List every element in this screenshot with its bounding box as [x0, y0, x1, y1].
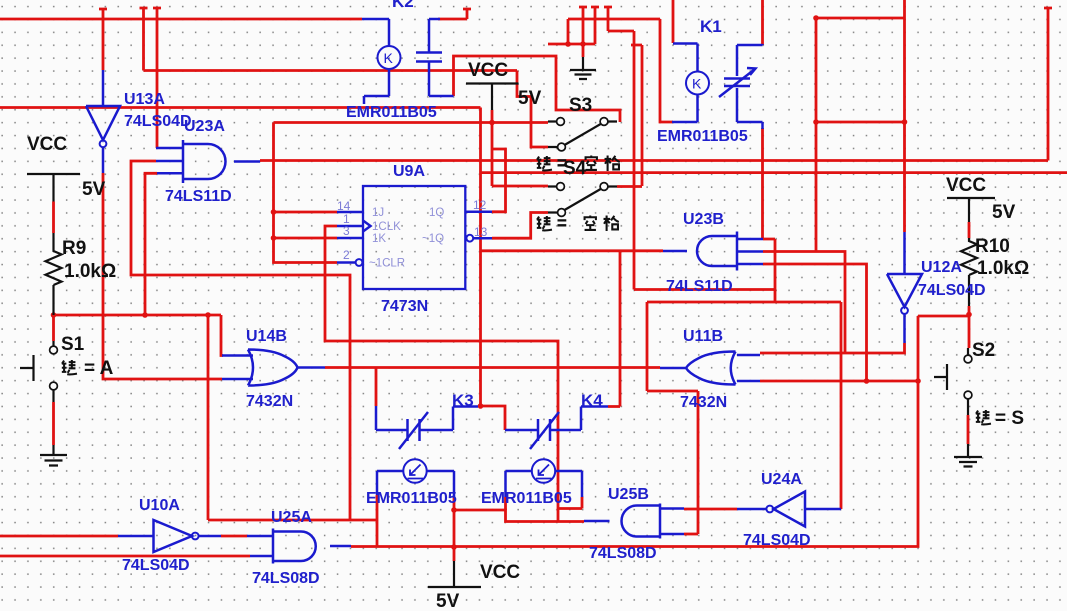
pin 3 stub U9A 1K: [337, 237, 363, 240]
node bottom VCC tap: [451, 544, 457, 550]
pin 12 stub U9A 1Q: [465, 211, 492, 214]
svg-text:74LS04D: 74LS04D: [122, 557, 190, 574]
wire bottom VCC drop: [453, 510, 456, 561]
wire x698 net: [647, 391, 698, 534]
wire top vertical x608: [604, 7, 634, 31]
or-gate U11B: [660, 352, 760, 385]
svg-text:U24A: U24A: [761, 471, 802, 488]
switch S1 stubs: [20, 341, 54, 402]
node pin3 tap: [271, 235, 277, 241]
svg-text:1CLK: 1CLK: [372, 221, 401, 233]
relay K3 contact slash: [399, 412, 428, 449]
pin 13 stub U9A ~1Q: [474, 237, 493, 240]
wire x492 vcc-S4 vertical: [492, 123, 548, 187]
wire pin3 feed: [274, 237, 338, 240]
relay K1 contact arrow: [719, 68, 756, 97]
svg-text:5V: 5V: [992, 202, 1016, 223]
wire U10A-U25A mid: [221, 535, 247, 538]
text jian S2: [976, 410, 991, 424]
text jian S1: [62, 360, 77, 374]
svg-text:U14B: U14B: [246, 328, 287, 345]
wire U23B bottom input chain: [763, 264, 867, 381]
svg-text:S3: S3: [569, 95, 592, 116]
wire S3 pole chain: [517, 71, 548, 148]
relay K1 contact: [724, 44, 763, 129]
wire VCC-C to S3 right: [454, 56, 621, 122]
ground under S1: [40, 445, 67, 466]
svg-text:~1CLR: ~1CLR: [369, 258, 405, 270]
svg-text:VCC: VCC: [27, 134, 67, 155]
node top gnd left: [565, 41, 571, 47]
text kong row2: [584, 216, 597, 230]
wire y520 row: [208, 519, 377, 522]
svg-text:K2: K2: [392, 0, 414, 11]
wire long line y172: [481, 171, 1067, 174]
wire S4 right stub: [617, 185, 642, 188]
svg-text:= A: = A: [84, 358, 114, 379]
jk-flipflop U9A box: [363, 186, 465, 289]
svg-text:~1Q: ~1Q: [422, 233, 444, 245]
svg-text:U11B: U11B: [683, 328, 723, 345]
wire y70 horizontal bus: [144, 69, 518, 72]
wire right edge vertical: [1044, 8, 1052, 161]
power VCC right symbol: [947, 198, 995, 222]
wire x918 bottom L: [351, 316, 918, 547]
wire U11B bottom input row: [760, 380, 918, 383]
wire U23A bottom input net: [145, 173, 157, 315]
switch S4 lever: [565, 189, 602, 211]
wire R10 top red stub: [968, 222, 971, 238]
node top gnd: [580, 41, 586, 47]
svg-text:1.0kΩ: 1.0kΩ: [977, 258, 1029, 279]
pin 2 stub U9A ~1CLR: [337, 261, 356, 264]
wire U25B bottom input stub: [684, 533, 698, 536]
svg-text:U13A: U13A: [124, 91, 165, 108]
relay K2 coil plates: [416, 19, 454, 96]
power VCC bottom symbol: [428, 561, 481, 587]
svg-text:VCC: VCC: [480, 562, 520, 583]
or-gate U14B: [222, 350, 325, 386]
wire top vertical x595: [591, 7, 599, 44]
svg-text:7432N: 7432N: [246, 393, 293, 410]
wire R10 bottom red stub: [968, 306, 971, 315]
wire bridge y122: [816, 121, 904, 124]
svg-text:U10A: U10A: [139, 497, 180, 514]
wire K1 contact bottom drop: [761, 128, 764, 239]
switch S3 stubs: [548, 122, 617, 148]
svg-text:13: 13: [474, 225, 488, 239]
wire K1 right top: [761, 0, 764, 45]
switch S3 lever: [565, 124, 602, 146]
svg-text:= S: = S: [995, 408, 1024, 429]
inverter U10A bubble: [192, 533, 199, 540]
inverter U10A: [118, 520, 250, 552]
node U11B in b1: [864, 378, 870, 384]
svg-text:74LS04D: 74LS04D: [124, 113, 192, 130]
node top right bridge: [813, 15, 819, 21]
svg-text:U25B: U25B: [608, 486, 649, 503]
svg-text:K: K: [384, 50, 394, 66]
inverter U24A: [737, 492, 841, 527]
wire x642 to S4 right: [631, 45, 642, 186]
pin 13 bubble: [466, 235, 473, 242]
svg-text:EMR011B05: EMR011B05: [366, 490, 457, 507]
relay K4 contact slash: [530, 412, 559, 449]
wire U13A top feed: [99, 9, 107, 70]
and-gate U25B: [584, 504, 684, 539]
wire pin14 feed: [274, 211, 338, 214]
switch S2 contact circles: [964, 355, 972, 363]
svg-text:2: 2: [343, 248, 350, 262]
wire S2 bottom red: [967, 415, 970, 444]
node K1 bridge right: [902, 119, 908, 125]
node K3 top: [478, 403, 484, 409]
wire K3 left contact feed: [375, 368, 378, 407]
wire x816 vertical: [815, 18, 818, 252]
node pin14 tap: [271, 209, 277, 215]
switch S3 circles: [557, 118, 565, 126]
wire top gnd horizontal: [548, 43, 595, 46]
text eq row1: [558, 160, 567, 165]
inverter U12A bubble: [901, 307, 908, 314]
svg-text:74LS08D: 74LS08D: [252, 570, 320, 587]
node y315 right: [205, 312, 211, 318]
svg-text:U9A: U9A: [393, 163, 425, 180]
wire U10A input row: [0, 535, 118, 538]
wire y315 row: [54, 315, 224, 356]
svg-text:74LS04D: 74LS04D: [743, 532, 811, 549]
wire U23B top input chain: [763, 239, 775, 302]
svg-text:U23B: U23B: [683, 211, 724, 228]
wire U23B lower staircase: [647, 302, 841, 509]
svg-text:5V: 5V: [436, 591, 460, 611]
ground under S2: [954, 444, 982, 467]
svg-text:U12A: U12A: [921, 259, 962, 276]
wire top gnd stem upper: [579, 7, 587, 57]
and-gate U25A: [250, 529, 351, 564]
node K coil common: [451, 507, 457, 513]
text eq row2: [558, 220, 567, 225]
wire U25B output row: [454, 510, 584, 522]
relay K4 contact: [505, 407, 608, 442]
switch S2 stubs: [934, 348, 968, 415]
wire x634 vertical net: [634, 31, 775, 290]
svg-text:R9: R9: [62, 238, 86, 259]
svg-text:S2: S2: [972, 340, 995, 361]
relay K2 coil leads: [362, 19, 389, 104]
wire long line y251: [481, 249, 664, 252]
wire vertical to y70 bus: [140, 8, 148, 71]
svg-text:14: 14: [337, 199, 351, 213]
resistor R10: [961, 238, 977, 306]
wire K4 contact to U23B out: [608, 252, 620, 407]
svg-text:VCC: VCC: [468, 60, 508, 81]
svg-text:1J: 1J: [372, 207, 384, 219]
wire K4 right lead red: [558, 497, 582, 509]
wire x208 vertical: [207, 315, 210, 520]
svg-text:K1: K1: [700, 17, 722, 36]
wire vertical x480 to K3: [479, 108, 482, 407]
wire U24A out to U25B: [684, 508, 737, 511]
wire VCC-L red stub: [52, 202, 55, 234]
relay K1 coil leads: [672, 44, 698, 123]
wire top-left bus to K2 coil: [0, 18, 362, 21]
inverter U13A: [86, 70, 120, 173]
wire K4 left lead red: [504, 497, 507, 510]
pin 1 stub U9A 1CLK: [337, 221, 371, 232]
wire top short bridge: [816, 17, 904, 20]
pin 14 stub U9A 1J: [337, 211, 363, 214]
relay K3 coil circle: [403, 459, 426, 482]
svg-text:K: K: [692, 76, 702, 92]
svg-text:12: 12: [473, 198, 487, 212]
text jian row2: [537, 216, 552, 230]
switch S1 contact circles: [50, 346, 58, 354]
wire K1 top-left horizontal: [568, 19, 660, 44]
ground top center: [570, 57, 596, 79]
text ge row2: [604, 216, 619, 231]
inverter U24A bubble: [766, 506, 773, 513]
svg-text:74LS04D: 74LS04D: [918, 282, 986, 299]
wire U23A output long line: [260, 159, 1048, 162]
svg-text:1K: 1K: [372, 233, 386, 245]
svg-text:K3: K3: [452, 391, 474, 410]
relay K1 coil circle: [686, 72, 709, 95]
node y315 mid: [142, 312, 148, 318]
wire CLK feed net: [325, 226, 558, 522]
and-gate U23A: [156, 140, 260, 183]
svg-text:74LS11D: 74LS11D: [666, 278, 733, 295]
wire U13A out to U14B: [103, 173, 222, 379]
wire pin13 to S4 pole: [492, 213, 548, 239]
svg-text:3: 3: [343, 224, 350, 238]
svg-text:U25A: U25A: [271, 509, 312, 526]
svg-text:74LS08D: 74LS08D: [589, 545, 657, 562]
resistor R9: [46, 233, 62, 315]
svg-text:7473N: 7473N: [381, 298, 428, 315]
text kong row1: [585, 156, 598, 170]
svg-text:S4: S4: [563, 158, 587, 179]
inverter U13A bubble: [100, 140, 107, 147]
power VCC left symbol: [27, 174, 80, 202]
relay K3 coil arrow: [408, 465, 424, 479]
power VCC center symbol: [466, 84, 519, 111]
text ge row1: [605, 156, 620, 171]
node R10 bottom: [966, 312, 972, 318]
and-gate U23B: [663, 232, 763, 271]
switch S4 stubs: [548, 187, 617, 213]
relay K4 coil circle: [532, 459, 555, 482]
wire U23B mid input chain: [763, 252, 845, 354]
svg-text:R10: R10: [975, 236, 1010, 257]
wire K coil left drop: [376, 495, 379, 547]
node K1 bridge left: [813, 119, 819, 125]
wire K1 coil bottom to top bus: [660, 19, 673, 122]
relay K3 contact: [376, 406, 478, 441]
svg-text:K4: K4: [581, 391, 603, 410]
wire U12A output to U11B: [760, 343, 905, 353]
wire long horizontal line2: [0, 106, 481, 109]
wire pins 14-3-2 vertical: [274, 123, 338, 263]
text jian row1: [537, 156, 552, 170]
wire R10 to S2: [968, 315, 971, 348]
pin 2 bubble: [356, 259, 363, 266]
wire R10 junction row: [918, 315, 969, 318]
relay K4 coil leads: [506, 471, 583, 497]
svg-text:7432N: 7432N: [680, 394, 727, 411]
wire VCC-C stem red: [491, 110, 494, 123]
relay K4 coil arrow: [536, 465, 552, 479]
wire S1 top red: [52, 315, 55, 341]
wire U23A top input feed: [153, 8, 161, 148]
wire U12A top feed: [903, 0, 906, 232]
svg-text:74LS11D: 74LS11D: [165, 188, 232, 205]
wire U23A mid input net: [131, 161, 350, 520]
svg-text:EMR011B05: EMR011B05: [481, 490, 572, 507]
svg-text:5V: 5V: [518, 88, 542, 109]
switch S4 circles: [557, 183, 565, 191]
wire K3 dot to K4 contact: [481, 406, 506, 430]
wire gate output row y367: [325, 366, 660, 369]
wire U25A bottom input row: [0, 555, 250, 558]
svg-text:U23A: U23A: [184, 118, 225, 135]
relay K2 coil circle: [378, 46, 401, 69]
wire K1 left top: [672, 0, 675, 43]
wire K2 coil right top feed: [438, 9, 471, 19]
svg-text:1.0kΩ: 1.0kΩ: [64, 261, 116, 282]
svg-text:VCC: VCC: [946, 175, 986, 196]
svg-text:1Q: 1Q: [429, 207, 444, 219]
svg-text:EMR011B05: EMR011B05: [346, 104, 437, 121]
node R9-S1: [51, 312, 57, 318]
node U11B in b2: [915, 378, 921, 384]
svg-text:5V: 5V: [82, 179, 106, 200]
wire K3 right lead red: [453, 497, 456, 510]
svg-text:S1: S1: [61, 334, 85, 355]
node VCC-C junction: [489, 120, 495, 126]
inverter U12A: [887, 232, 922, 343]
wire pin12 chain: [492, 149, 506, 212]
svg-text:EMR011B05: EMR011B05: [657, 128, 748, 145]
wire S3 left row: [274, 121, 549, 124]
relay K3 coil leads: [377, 471, 454, 497]
wire S1 bottom red: [52, 402, 55, 445]
